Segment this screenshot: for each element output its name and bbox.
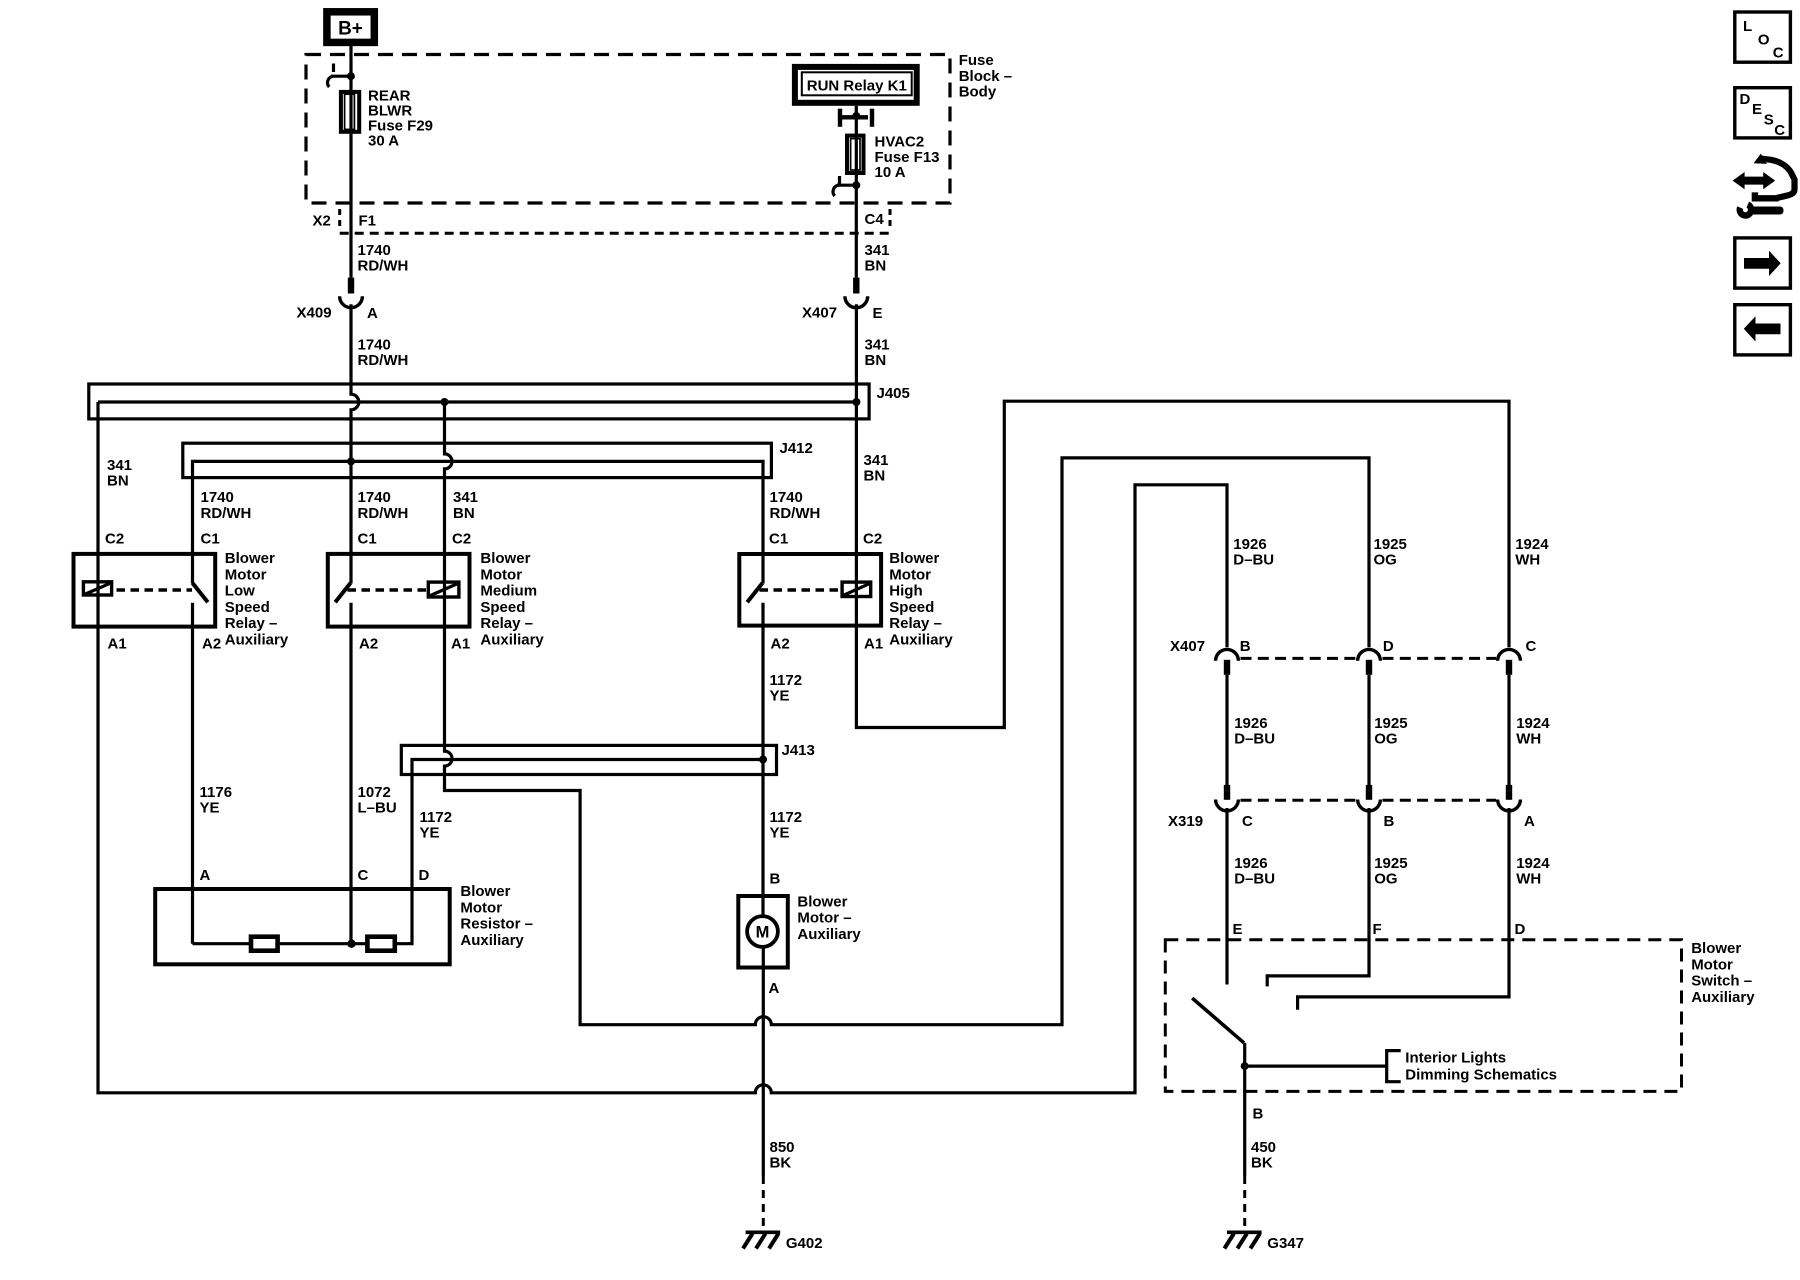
fuse holder clip upper (F29) bbox=[332, 64, 335, 73]
svg-text:A1: A1 bbox=[108, 636, 127, 653]
wire X407D to X319B bbox=[1367, 675, 1370, 785]
relay output clip (bracket) bbox=[838, 109, 842, 127]
LOC icon box bbox=[1735, 12, 1791, 62]
svg-text:Blower: Blower bbox=[480, 550, 530, 567]
svg-text:Speed: Speed bbox=[889, 599, 934, 616]
medium relay A2 stub + wire 1072 L-BU to resistor C bbox=[349, 603, 352, 944]
svg-text:1172: 1172 bbox=[420, 809, 453, 826]
svg-text:D–BU: D–BU bbox=[1234, 871, 1275, 888]
svg-text:Motor: Motor bbox=[889, 566, 931, 583]
relay Blower Motor Low Speed Relay box bbox=[74, 554, 216, 627]
splice pack J413 outer box bbox=[401, 745, 776, 774]
svg-text:Auxiliary: Auxiliary bbox=[797, 926, 861, 943]
resistor box Blower Motor Resistor bbox=[155, 889, 450, 964]
resistor element 2 bbox=[367, 937, 394, 951]
svg-text:X319: X319 bbox=[1168, 813, 1203, 830]
svg-text:Body: Body bbox=[959, 84, 997, 101]
DESC icon box bbox=[1735, 88, 1791, 138]
connector X319-A bbox=[1506, 785, 1512, 800]
svg-text:RD/WH: RD/WH bbox=[201, 505, 252, 522]
svg-text:M: M bbox=[756, 923, 770, 941]
svg-text:A1: A1 bbox=[864, 636, 883, 653]
high relay linkage (dashed) bbox=[760, 588, 839, 591]
svg-text:A1: A1 bbox=[451, 636, 470, 653]
svg-text:Speed: Speed bbox=[480, 599, 525, 616]
svg-text:J405: J405 bbox=[877, 385, 910, 402]
svg-text:1925: 1925 bbox=[1374, 715, 1407, 732]
previous page arrow icon bbox=[1735, 305, 1791, 355]
svg-text:YE: YE bbox=[770, 825, 790, 842]
svg-text:RD/WH: RD/WH bbox=[358, 258, 409, 275]
svg-text:B: B bbox=[1240, 638, 1251, 655]
svg-text:BN: BN bbox=[865, 258, 887, 275]
svg-text:C: C bbox=[1773, 45, 1784, 62]
svg-text:Speed: Speed bbox=[225, 599, 270, 616]
swap arrows icon bbox=[1733, 172, 1776, 189]
svg-text:Motor –: Motor – bbox=[797, 910, 851, 927]
svg-text:A: A bbox=[1524, 813, 1535, 830]
wire motor ground dashed lead bbox=[762, 1176, 765, 1229]
svg-text:C: C bbox=[1774, 122, 1785, 139]
svg-text:A2: A2 bbox=[359, 636, 378, 653]
svg-text:C1: C1 bbox=[769, 531, 788, 548]
svg-text:1925: 1925 bbox=[1374, 536, 1407, 553]
svg-text:341: 341 bbox=[864, 452, 889, 469]
svg-text:Motor: Motor bbox=[225, 566, 267, 583]
fuse F29 REAR BLWR bbox=[341, 92, 359, 132]
svg-text:Dimming Schematics: Dimming Schematics bbox=[1405, 1067, 1557, 1084]
svg-text:OG: OG bbox=[1374, 871, 1397, 888]
connector C4 separator bbox=[889, 209, 892, 231]
svg-text:L: L bbox=[1743, 18, 1752, 35]
wire 341 BN J405 left drop to low relay C2 bbox=[96, 402, 99, 554]
svg-text:YE: YE bbox=[420, 825, 440, 842]
svg-text:Low: Low bbox=[225, 583, 255, 600]
wire RUN relay to HVAC2 fuse bbox=[855, 106, 858, 278]
switch arm output wire B 450 BK bbox=[1243, 1043, 1246, 1176]
svg-text:341: 341 bbox=[107, 457, 132, 474]
wire X319C to switch E bbox=[1225, 808, 1228, 985]
svg-text:WH: WH bbox=[1516, 871, 1541, 888]
svg-text:B: B bbox=[1253, 1106, 1264, 1123]
wire B+ to fuse block / fuse F29 feed bbox=[349, 46, 352, 278]
svg-text:1072: 1072 bbox=[358, 784, 391, 801]
interior lights bracket bbox=[1387, 1051, 1401, 1082]
svg-text:X407: X407 bbox=[1170, 638, 1205, 655]
svg-text:A: A bbox=[200, 867, 211, 884]
fuse block output dashed connector line bbox=[340, 232, 890, 235]
svg-text:10 A: 10 A bbox=[875, 164, 906, 181]
svg-text:WH: WH bbox=[1516, 731, 1541, 748]
ground G402 symbol bbox=[746, 1231, 781, 1235]
svg-text:Relay –: Relay – bbox=[480, 615, 533, 632]
switch ground dashed lead bbox=[1243, 1176, 1246, 1229]
svg-text:C: C bbox=[1526, 638, 1537, 655]
switch arm (selector) bbox=[1192, 998, 1244, 1043]
resistor internal wire bbox=[193, 942, 251, 945]
connector X407-B bbox=[1216, 649, 1239, 660]
svg-text:30 A: 30 A bbox=[368, 132, 399, 149]
svg-text:341: 341 bbox=[865, 242, 890, 259]
wire 341 BN J405 to medium relay C2 (hops J412,J413) then 1925 OG loop to X407 D bbox=[445, 402, 1370, 1025]
connector X2/F1 separator bbox=[338, 209, 341, 231]
svg-text:1172: 1172 bbox=[770, 672, 803, 689]
svg-text:Switch –: Switch – bbox=[1691, 973, 1752, 990]
svg-text:Motor: Motor bbox=[480, 566, 522, 583]
svg-text:D–BU: D–BU bbox=[1233, 552, 1274, 569]
svg-text:F: F bbox=[1373, 921, 1382, 938]
dashed connector line X319 row bbox=[1241, 799, 1357, 802]
wire X407C to X319A bbox=[1507, 675, 1510, 785]
svg-text:Auxiliary: Auxiliary bbox=[889, 632, 953, 649]
svg-text:C1: C1 bbox=[358, 531, 377, 548]
ground G347 symbol bbox=[1227, 1231, 1262, 1235]
svg-text:J413: J413 bbox=[782, 742, 815, 759]
svg-text:A: A bbox=[367, 305, 378, 322]
svg-text:J412: J412 bbox=[780, 440, 813, 457]
svg-text:Block –: Block – bbox=[959, 68, 1012, 85]
svg-text:C1: C1 bbox=[201, 531, 220, 548]
power feed B+ terminal box bbox=[327, 12, 374, 43]
connector X409 pin A bbox=[348, 278, 354, 294]
svg-text:X2: X2 bbox=[313, 212, 331, 229]
svg-text:S: S bbox=[1764, 112, 1774, 129]
junction dot J412/1740 bbox=[347, 457, 355, 465]
relay Blower Motor High Speed Relay box bbox=[739, 554, 881, 626]
svg-text:C: C bbox=[358, 867, 369, 884]
svg-text:1925: 1925 bbox=[1374, 855, 1407, 872]
svg-text:OG: OG bbox=[1374, 552, 1397, 569]
connector X319-C bbox=[1224, 785, 1230, 800]
low relay A2 stub bbox=[191, 603, 194, 629]
svg-text:D: D bbox=[1515, 921, 1526, 938]
svg-text:1926: 1926 bbox=[1233, 536, 1266, 553]
svg-text:BK: BK bbox=[770, 1155, 792, 1172]
junction dot resistor C bbox=[347, 940, 355, 948]
motor symbol M circle bbox=[747, 916, 778, 947]
svg-text:1740: 1740 bbox=[201, 489, 234, 506]
wire 1176 YE low A2 to resistor A bbox=[191, 629, 194, 944]
relay Blower Motor Medium Speed Relay box bbox=[328, 554, 470, 627]
svg-text:1924: 1924 bbox=[1516, 855, 1550, 872]
svg-text:A2: A2 bbox=[202, 636, 221, 653]
splice pack J412 bus line with drops to C1 pins bbox=[193, 461, 764, 583]
medium relay linkage (dashed) bbox=[348, 588, 427, 591]
wire X407B to X319C bbox=[1225, 675, 1228, 785]
svg-text:1740: 1740 bbox=[358, 242, 391, 259]
wrench icon bbox=[1740, 205, 1751, 216]
svg-text:OG: OG bbox=[1374, 731, 1397, 748]
low relay coil bbox=[83, 582, 111, 595]
junction dot J405/341BN right bbox=[852, 398, 860, 406]
resistor element 1 bbox=[251, 937, 278, 951]
svg-text:1176: 1176 bbox=[200, 784, 233, 801]
svg-text:B+: B+ bbox=[338, 19, 363, 40]
splice pack J405 outer box bbox=[89, 384, 869, 419]
motor box Blower Motor - Auxiliary bbox=[738, 896, 788, 968]
svg-text:Interior Lights: Interior Lights bbox=[1405, 1050, 1506, 1067]
svg-text:D: D bbox=[419, 867, 430, 884]
high relay coil bbox=[842, 582, 871, 596]
svg-text:B: B bbox=[1384, 813, 1395, 830]
RUN Relay K1 box bbox=[795, 67, 917, 103]
svg-text:BN: BN bbox=[453, 505, 475, 522]
wire to interior lights dimming bbox=[1245, 1064, 1387, 1067]
svg-text:Motor: Motor bbox=[460, 899, 502, 916]
wire 341 BN X407E to high relay C2 via J405 bbox=[856, 304, 1509, 727]
splice pack J412 outer box bbox=[183, 443, 772, 477]
wire X319B to switch F bbox=[1267, 808, 1369, 986]
svg-text:G402: G402 bbox=[786, 1235, 823, 1252]
connector X407-C bbox=[1498, 649, 1521, 660]
low relay linkage (dashed) bbox=[117, 588, 193, 591]
svg-text:C4: C4 bbox=[865, 211, 885, 228]
svg-text:Auxiliary: Auxiliary bbox=[480, 632, 544, 649]
svg-text:YE: YE bbox=[770, 688, 790, 705]
svg-text:C2: C2 bbox=[863, 531, 882, 548]
svg-text:BN: BN bbox=[865, 352, 887, 369]
svg-text:Auxiliary: Auxiliary bbox=[225, 632, 289, 649]
medium relay coil bbox=[428, 582, 459, 597]
svg-text:BN: BN bbox=[864, 468, 886, 485]
splice pack J405 bus line bbox=[98, 400, 854, 403]
low relay switch arm bbox=[193, 583, 208, 602]
svg-text:BK: BK bbox=[1251, 1155, 1273, 1172]
svg-text:Auxiliary: Auxiliary bbox=[460, 932, 524, 949]
svg-text:E: E bbox=[873, 305, 883, 322]
svg-text:B: B bbox=[770, 871, 781, 888]
svg-text:C2: C2 bbox=[105, 531, 124, 548]
svg-text:O: O bbox=[1758, 32, 1770, 49]
svg-text:341: 341 bbox=[865, 337, 890, 354]
svg-text:Blower: Blower bbox=[225, 550, 275, 567]
svg-text:RD/WH: RD/WH bbox=[770, 505, 821, 522]
connector X319-B bbox=[1366, 785, 1372, 800]
svg-text:Fuse: Fuse bbox=[959, 52, 994, 69]
svg-text:Blower: Blower bbox=[889, 550, 939, 567]
wire low relay A1 1926 D-BU loop to X407 B bbox=[98, 485, 1227, 1093]
splice pack J413 bus line with drop to resistor D bbox=[397, 760, 763, 944]
svg-text:D: D bbox=[1740, 91, 1751, 108]
svg-text:D–BU: D–BU bbox=[1234, 731, 1275, 748]
fuse block dashed border bbox=[306, 55, 950, 204]
svg-text:Blower: Blower bbox=[797, 893, 847, 910]
svg-text:Medium: Medium bbox=[480, 583, 537, 600]
svg-text:1924: 1924 bbox=[1516, 715, 1550, 732]
fuse F13 HVAC2 bbox=[847, 136, 864, 173]
svg-text:E: E bbox=[1752, 101, 1762, 118]
high relay switch arm bbox=[747, 583, 762, 602]
svg-text:341: 341 bbox=[453, 489, 478, 506]
next page arrow icon bbox=[1735, 238, 1791, 288]
junction dot switch output bbox=[1241, 1062, 1249, 1070]
svg-text:Blower: Blower bbox=[460, 883, 510, 900]
svg-text:1172: 1172 bbox=[770, 809, 803, 826]
svg-text:D: D bbox=[1383, 638, 1394, 655]
svg-text:RUN Relay K1: RUN Relay K1 bbox=[807, 78, 907, 95]
svg-text:L–BU: L–BU bbox=[358, 800, 397, 817]
wire X319A to switch D bbox=[1298, 808, 1509, 1010]
svg-text:A2: A2 bbox=[771, 636, 790, 653]
junction dot J405/341BN center bbox=[441, 398, 449, 406]
svg-text:1740: 1740 bbox=[770, 489, 803, 506]
medium relay switch arm bbox=[335, 583, 350, 602]
svg-text:C: C bbox=[1242, 813, 1253, 830]
dashed connector line X407 row bbox=[1241, 657, 1357, 660]
svg-text:1924: 1924 bbox=[1515, 536, 1549, 553]
svg-text:Blower: Blower bbox=[1691, 940, 1741, 957]
svg-text:450: 450 bbox=[1251, 1139, 1276, 1156]
blower motor switch dashed box bbox=[1165, 940, 1681, 1092]
svg-text:F1: F1 bbox=[359, 212, 377, 229]
fuse holder clip lower (F13) bbox=[838, 176, 841, 184]
wire 1740 RD/WH X409 to medium relay C1 (hops J405) bbox=[351, 304, 359, 583]
svg-text:Resistor –: Resistor – bbox=[460, 916, 533, 933]
wire motor A to ground (solid part) bbox=[762, 946, 765, 1176]
svg-text:RD/WH: RD/WH bbox=[358, 352, 409, 369]
svg-text:YE: YE bbox=[200, 800, 220, 817]
svg-text:Relay –: Relay – bbox=[225, 615, 278, 632]
junction dot J413/1172 bbox=[759, 756, 767, 764]
svg-text:Relay –: Relay – bbox=[889, 615, 942, 632]
connector X407 pin E bbox=[853, 278, 859, 294]
svg-text:1740: 1740 bbox=[358, 337, 391, 354]
svg-text:1740: 1740 bbox=[358, 489, 391, 506]
svg-text:850: 850 bbox=[770, 1139, 795, 1156]
connector X407-D bbox=[1358, 649, 1381, 660]
svg-text:E: E bbox=[1233, 921, 1243, 938]
svg-text:C2: C2 bbox=[452, 531, 471, 548]
svg-text:X409: X409 bbox=[297, 305, 332, 322]
svg-text:RD/WH: RD/WH bbox=[358, 505, 409, 522]
svg-text:Auxiliary: Auxiliary bbox=[1691, 989, 1755, 1006]
svg-text:1926: 1926 bbox=[1234, 855, 1267, 872]
svg-text:A: A bbox=[769, 980, 780, 997]
svg-text:X407: X407 bbox=[802, 305, 837, 322]
svg-text:1926: 1926 bbox=[1234, 715, 1267, 732]
svg-text:WH: WH bbox=[1515, 552, 1540, 569]
svg-text:Motor: Motor bbox=[1691, 956, 1733, 973]
svg-text:G347: G347 bbox=[1267, 1235, 1304, 1252]
high relay A2 stub + wire 1172 YE to motor via J413 bbox=[761, 603, 764, 915]
svg-text:High: High bbox=[889, 583, 922, 600]
svg-text:BN: BN bbox=[107, 473, 129, 490]
